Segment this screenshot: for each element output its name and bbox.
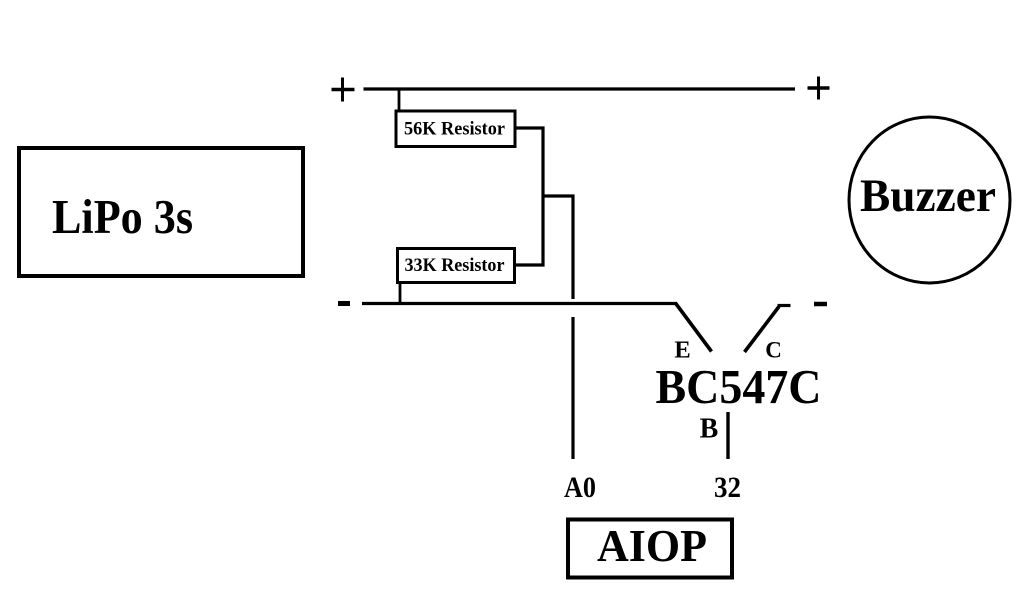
wire divider tap horizontal	[543, 194, 575, 197]
wire emitter lead E	[676, 304, 712, 352]
svg-text:56K Resistor: 56K Resistor	[404, 119, 506, 140]
node - (battery negative, left)	[338, 301, 350, 306]
wire 56K output stub	[514, 126, 545, 129]
resistor 56K	[396, 111, 515, 147]
svg-text:Buzzer: Buzzer	[860, 170, 996, 222]
wire from 33K resistor to negative rail	[399, 283, 402, 303]
svg-text:BC547C: BC547C	[656, 359, 822, 414]
node + (battery positive, left)	[332, 78, 355, 102]
svg-text:A0: A0	[564, 471, 596, 504]
wire base lead B	[726, 412, 729, 459]
battery LiPo 3s	[19, 148, 303, 276]
node - (buzzer negative, right)	[814, 302, 827, 307]
svg-text:B: B	[700, 414, 719, 445]
wire collector lead C	[745, 306, 791, 353]
controller AIOP	[568, 520, 732, 578]
svg-text:LiPo 3s: LiPo 3s	[52, 189, 193, 244]
svg-text:32: 32	[714, 471, 741, 504]
wire divider vertical	[541, 127, 544, 267]
wire divider tap to A0	[571, 317, 574, 459]
wire positive rail	[364, 87, 796, 90]
buzzer	[849, 117, 1010, 283]
wire 33K output stub	[514, 263, 545, 266]
node + (buzzer positive, right)	[808, 77, 830, 100]
wire negative rail	[362, 302, 677, 305]
resistor 33K	[398, 249, 515, 283]
svg-text:AIOP: AIOP	[597, 520, 707, 571]
svg-text:33K Resistor: 33K Resistor	[405, 255, 506, 276]
wire from positive rail to 56K resistor	[398, 89, 401, 112]
wire divider tap vertical	[571, 195, 574, 300]
